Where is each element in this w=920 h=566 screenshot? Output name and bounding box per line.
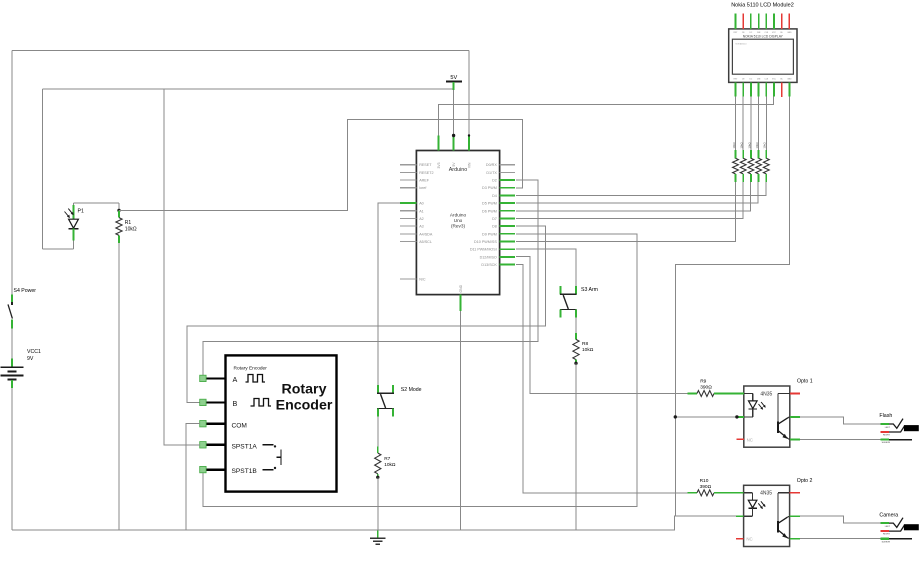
wire VIN drop (468, 51, 470, 136)
wire encoder SPST1A to 5V rail (164, 89, 200, 445)
wire opto2 emitter to Camera SLEEVE (800, 538, 880, 540)
svg-text:10kΩ: 10kΩ (582, 347, 594, 353)
svg-text:5V: 5V (452, 162, 456, 167)
wire R8 to ground rail (575, 363, 577, 530)
wire R1 bottom to ground rail (118, 243, 120, 530)
svg-text:NC: NC (747, 437, 753, 442)
wire S2 to R7 (377, 417, 379, 447)
svg-text:390Ω: 390Ω (700, 484, 712, 490)
svg-text:Opto 1: Opto 1 (797, 379, 813, 385)
wire Nokia VCC drop (773, 97, 775, 105)
op Arduino top pin legs (437, 136, 439, 151)
svg-text:S3 Arm: S3 Arm (581, 287, 598, 293)
svg-text:4N35: 4N35 (760, 391, 772, 397)
svg-text:D13/SCK: D13/SCK (481, 263, 497, 267)
wire VCC top rail (12, 50, 469, 52)
svg-text:10kΩ: 10kΩ (763, 142, 767, 148)
resistor bank R2-R6 10k (735, 150, 737, 158)
wire 5V symbol to pin (453, 90, 455, 136)
svg-text:3V3: 3V3 (437, 162, 441, 168)
wire Nokia top stubs (735, 14, 737, 29)
svg-text:LEFT: LEFT (885, 526, 891, 528)
wire 5V rail (43, 88, 454, 90)
svg-text:10kΩ: 10kΩ (747, 142, 751, 148)
svg-text:R8: R8 (582, 341, 588, 347)
node cathode junction B (735, 415, 738, 418)
svg-text:D7: D7 (492, 217, 497, 221)
battery VCC1 9V (11, 359, 13, 367)
svg-text:RESET2: RESET2 (419, 171, 433, 175)
svg-text:Arduino: Arduino (449, 167, 468, 173)
svg-text:GND: GND (787, 32, 792, 34)
svg-text:SLEEVE: SLEEVE (882, 442, 891, 444)
op Arduino left pin legs (400, 164, 416, 166)
wire ground rail (12, 516, 736, 530)
svg-text:D6 PWM: D6 PWM (482, 209, 497, 213)
resistor R10 390 (688, 492, 698, 494)
wire D8 to encoder B (187, 226, 546, 402)
svg-text:D9 PWM: D9 PWM (482, 232, 497, 236)
wire Nokia pins to resistors (735, 97, 737, 151)
svg-text:D5 PWM: D5 PWM (482, 202, 497, 206)
wire R6 to D4 (516, 182, 766, 196)
svg-text:A4/SDA: A4/SDA (419, 232, 433, 236)
svg-text:D11 PWM/MOSI: D11 PWM/MOSI (470, 248, 497, 252)
svg-text:VCC1: VCC1 (27, 349, 41, 355)
svg-text:A5/SCL: A5/SCL (419, 240, 432, 244)
wire R3 to D7 (516, 182, 743, 219)
wire opto1 collector to Flash LEFT (800, 417, 880, 424)
node R7 bottom (376, 476, 379, 479)
svg-text:A3: A3 (419, 225, 424, 229)
svg-text:4N35: 4N35 (760, 491, 772, 497)
svg-text:5V: 5V (450, 75, 457, 81)
svg-text:GND: GND (787, 79, 792, 81)
svg-text:S4 Power: S4 Power (14, 288, 37, 294)
svg-text:VIN: VIN (468, 162, 472, 168)
svg-text:Flash: Flash (879, 413, 892, 419)
svg-text:VCC: VCC (772, 79, 777, 81)
svg-text:P1: P1 (78, 209, 84, 215)
svg-text:LEFT: LEFT (885, 427, 891, 429)
svg-text:9V: 9V (27, 356, 34, 362)
svg-text:B: B (233, 399, 238, 408)
op Arduino right pin legs (500, 164, 516, 166)
svg-text:AREF: AREF (419, 179, 430, 183)
wire S3 to R8 (575, 318, 577, 334)
wire R2 to D10 (516, 182, 735, 242)
svg-text:COM: COM (232, 422, 247, 429)
svg-text:Rotary Encoder: Rotary Encoder (234, 365, 268, 371)
svg-text:A1: A1 (419, 209, 424, 213)
resistor R1 10k (118, 210, 120, 217)
svg-text:(Rev3): (Rev3) (451, 223, 466, 228)
svg-text:10kΩ: 10kΩ (732, 142, 736, 148)
wire encoder COM to ground rail (186, 424, 200, 530)
wire 3V3 rail to Nokia VCC (438, 97, 773, 136)
resistor R8 10k (575, 333, 577, 339)
resistor R7 10k (377, 447, 379, 453)
wire Nokia GND to cathode rail (675, 97, 789, 516)
node 5V pin (452, 134, 455, 137)
svg-text:D8: D8 (492, 225, 497, 229)
svg-text:10kΩ: 10kΩ (755, 142, 759, 148)
svg-text:Arduino: Arduino (450, 213, 467, 218)
power symbol 5V (446, 80, 462, 82)
svg-text:10kΩ: 10kΩ (384, 462, 396, 468)
op Arduino Uno box (416, 151, 499, 295)
wire Arduino GND down (460, 311, 462, 530)
svg-text:D12/MISO: D12/MISO (480, 255, 497, 259)
svg-text:NOKIA 5110 LCD DISPLAY: NOKIA 5110 LCD DISPLAY (743, 34, 784, 38)
switch S4 Power (11, 295, 13, 304)
svg-text:RIGHT: RIGHT (883, 435, 890, 437)
svg-text:NOKIA 5110: NOKIA 5110 (736, 43, 748, 46)
op Arduino GND pin leg (460, 295, 462, 311)
svg-text:Rotary: Rotary (282, 381, 327, 397)
wire P1 top to node (74, 202, 120, 204)
svg-text:D1/TX: D1/TX (486, 171, 497, 175)
svg-text:SPST1A: SPST1A (232, 443, 258, 450)
op Rotary Encoder (226, 355, 337, 491)
svg-text:Uno: Uno (454, 218, 463, 223)
wire 5V to P1 bottom (43, 248, 74, 250)
wire D12 to R9 (516, 257, 687, 394)
svg-text:10kΩ: 10kΩ (125, 227, 137, 233)
node R1 top (117, 209, 120, 212)
op Nokia 5110 LCD box (729, 29, 797, 83)
svg-text:A0: A0 (419, 202, 424, 206)
svg-text:R7: R7 (384, 456, 390, 462)
wire R7 to ground (377, 477, 379, 530)
svg-text:R9: R9 (700, 379, 706, 385)
svg-text:D0/RX: D0/RX (486, 163, 497, 167)
svg-text:Encoder: Encoder (276, 397, 333, 413)
svg-text:SLEEVE: SLEEVE (882, 541, 891, 543)
op-amp U2 opto 4N35 (744, 485, 790, 546)
wire R5 to D5 (516, 182, 758, 203)
wire Nokia bottom stubs (735, 82, 737, 96)
node cathode junction A (674, 415, 677, 418)
svg-text:SPST1B: SPST1B (232, 468, 258, 475)
wire S4 to battery (11, 328, 13, 358)
switch S3 Arm (560, 286, 562, 294)
wire battery- to ground rail (11, 388, 13, 530)
svg-text:ioref: ioref (419, 186, 427, 190)
svg-text:R10: R10 (700, 478, 709, 484)
wire opto1 emitter to Flash SLEEVE (800, 438, 880, 440)
svg-text:D10 PWM/SS: D10 PWM/SS (474, 240, 497, 244)
wire opto2 collector to Camera LEFT (800, 516, 880, 523)
svg-text:Camera: Camera (879, 512, 898, 518)
svg-text:GND: GND (459, 284, 463, 292)
svg-text:RIGHT: RIGHT (883, 534, 890, 536)
svg-text:Opto 2: Opto 2 (797, 478, 813, 484)
svg-text:D2: D2 (492, 179, 497, 183)
resistor R9 390 (688, 393, 698, 395)
svg-text:390Ω: 390Ω (700, 385, 712, 391)
photodiode P1 (73, 203, 75, 207)
op-amp U1 opto 4N35 (744, 386, 790, 447)
svg-text:VCC: VCC (772, 32, 777, 34)
wire R4 to D6 (516, 182, 750, 211)
svg-text:Nokia 5110 LCD Module2: Nokia 5110 LCD Module2 (731, 2, 794, 8)
svg-text:S2 Mode: S2 Mode (401, 387, 422, 393)
svg-text:R1: R1 (125, 220, 132, 226)
svg-text:A2: A2 (419, 217, 424, 221)
wire D11 to S3 (516, 249, 576, 286)
switch S2 Mode (377, 385, 379, 393)
ground (377, 530, 379, 537)
svg-text:BL: BL (781, 79, 783, 81)
svg-text:D3 PWM: D3 PWM (482, 186, 497, 190)
svg-text:RESET: RESET (419, 163, 432, 167)
svg-text:N/C: N/C (419, 277, 426, 281)
node R8 bottom (574, 362, 577, 365)
svg-text:10kΩ: 10kΩ (740, 142, 744, 148)
wire opto cathodes (675, 416, 736, 418)
svg-text:NC: NC (746, 537, 752, 542)
wire D13 to R10 (516, 264, 687, 492)
wire encoder SPST1B to D9 (203, 234, 637, 507)
wire A0 to S2 (378, 203, 400, 385)
svg-text:A: A (233, 375, 238, 384)
svg-text:D4: D4 (492, 194, 497, 198)
wire node to D3 (119, 120, 523, 211)
wire D2 to encoder A (203, 180, 538, 375)
svg-text:BL: BL (781, 32, 783, 34)
